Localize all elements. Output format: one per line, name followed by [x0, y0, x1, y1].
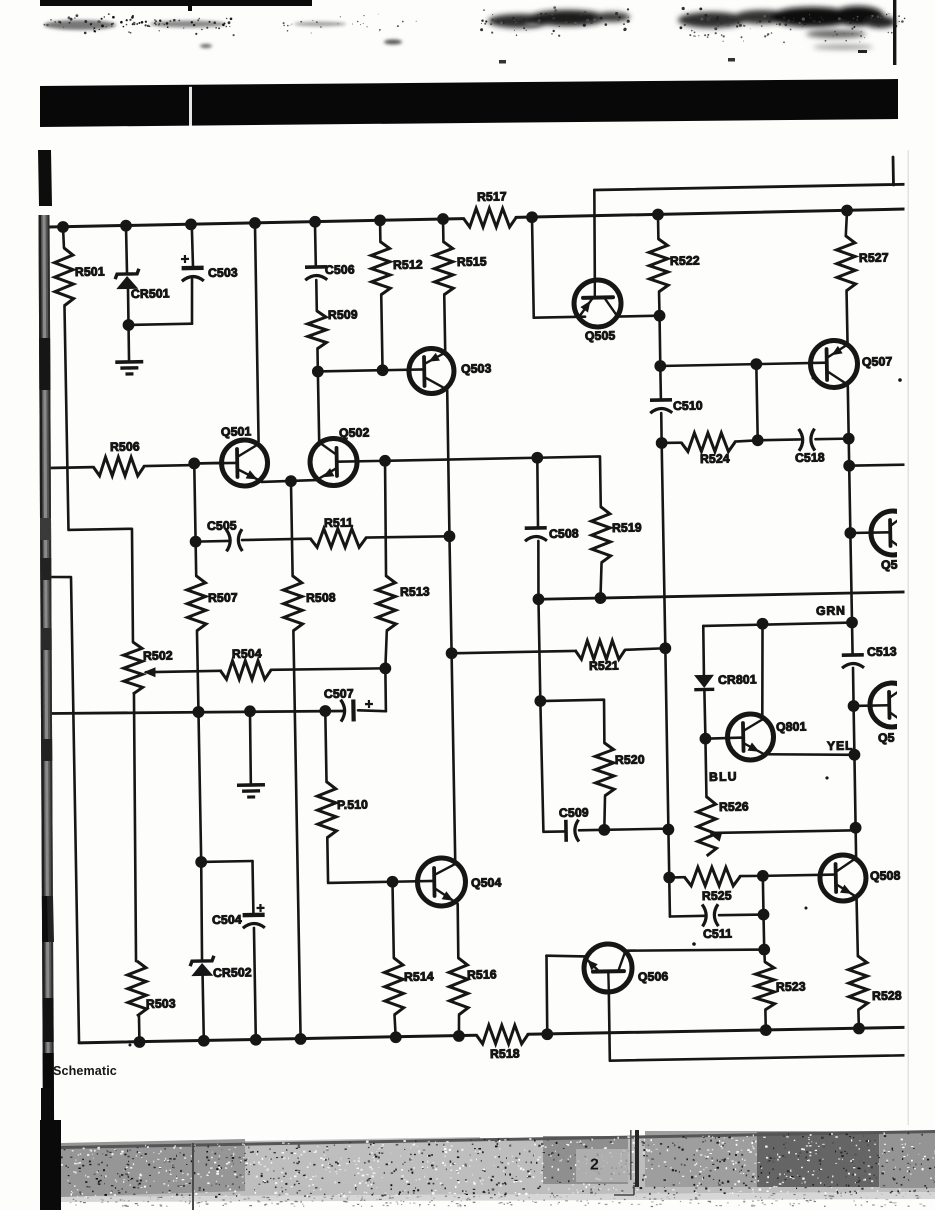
svg-text:CR501: CR501	[131, 286, 170, 301]
svg-text:C518: C518	[795, 450, 825, 465]
svg-text:C510: C510	[673, 398, 703, 413]
svg-text:P.510: P.510	[337, 797, 368, 812]
svg-text:R526: R526	[719, 800, 749, 815]
svg-text:R504: R504	[232, 646, 262, 661]
svg-text:R515: R515	[457, 255, 487, 270]
svg-text:R523: R523	[776, 979, 806, 994]
svg-text:Q501: Q501	[221, 424, 252, 439]
svg-text:Q502: Q502	[339, 425, 370, 440]
svg-text:R522: R522	[670, 253, 700, 268]
svg-text:C511: C511	[703, 927, 732, 942]
svg-text:R502: R502	[143, 648, 173, 663]
svg-text:C508: C508	[549, 526, 579, 541]
svg-text:C505: C505	[207, 519, 237, 534]
svg-text:R516: R516	[467, 967, 497, 982]
svg-text:Q503: Q503	[461, 361, 492, 376]
svg-text:R501: R501	[75, 264, 105, 279]
svg-text:2: 2	[590, 1157, 599, 1174]
svg-text:R520: R520	[615, 753, 645, 768]
svg-text:C503: C503	[208, 265, 238, 280]
svg-text:C504: C504	[212, 912, 242, 927]
svg-text:R517: R517	[477, 189, 507, 204]
svg-text:R508: R508	[306, 590, 336, 605]
svg-text:Q801: Q801	[776, 720, 807, 735]
svg-text:CR801: CR801	[718, 672, 757, 687]
svg-text:R509: R509	[328, 307, 358, 322]
svg-text:R528: R528	[872, 988, 902, 1003]
svg-text:R519: R519	[612, 520, 642, 535]
svg-text:R518: R518	[490, 1046, 520, 1061]
svg-text:Schematic: Schematic	[53, 1064, 117, 1078]
svg-text:Q507: Q507	[862, 354, 893, 369]
svg-text:R506: R506	[110, 439, 140, 454]
svg-text:R513: R513	[400, 584, 430, 599]
svg-text:CR502: CR502	[213, 965, 252, 980]
svg-text:R521: R521	[589, 658, 619, 673]
svg-text:R507: R507	[208, 591, 238, 606]
svg-text:R524: R524	[700, 451, 730, 466]
svg-text:Q5: Q5	[881, 558, 898, 572]
svg-text:BLU: BLU	[709, 770, 738, 784]
svg-text:R511: R511	[324, 515, 353, 530]
svg-text:C507: C507	[324, 686, 354, 701]
svg-text:Q5: Q5	[878, 731, 895, 745]
svg-text:Q504: Q504	[471, 875, 502, 890]
svg-text:Q506: Q506	[638, 969, 669, 984]
svg-text:YEL: YEL	[827, 739, 854, 753]
svg-text:C509: C509	[559, 806, 589, 821]
svg-text:R503: R503	[146, 996, 176, 1011]
svg-text:R525: R525	[702, 889, 732, 904]
svg-text:R512: R512	[393, 258, 423, 273]
svg-text:GRN: GRN	[816, 603, 846, 618]
svg-text:Q508: Q508	[870, 868, 901, 883]
svg-text:C513: C513	[867, 645, 897, 660]
svg-text:R527: R527	[859, 250, 889, 265]
svg-text:Q505: Q505	[585, 328, 616, 343]
svg-text:C506: C506	[325, 263, 355, 278]
svg-text:R514: R514	[404, 969, 434, 984]
